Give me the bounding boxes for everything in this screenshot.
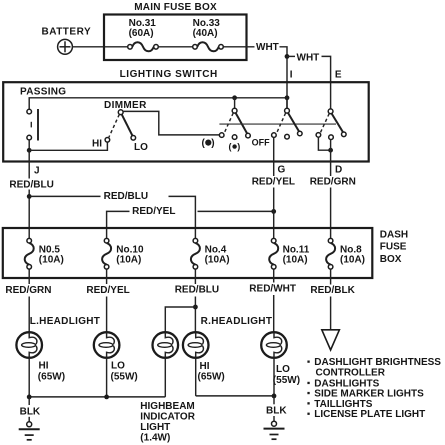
svg-text:LIGHTING SWITCH: LIGHTING SWITCH	[120, 69, 218, 80]
svg-text:(10A): (10A)	[39, 255, 64, 266]
wire dimmer output to switch 1	[123, 111, 219, 134]
node highbeam branch	[165, 305, 198, 333]
switch 2 parking	[272, 95, 303, 139]
svg-text:DASH: DASH	[380, 229, 408, 240]
svg-text:LO: LO	[111, 361, 125, 372]
wire RED/YEL to fuse No.10	[107, 206, 277, 239]
svg-text:CONTROLLER: CONTROLLER	[316, 367, 386, 378]
svg-text:DIMMER: DIMMER	[104, 100, 147, 111]
svg-text:E: E	[335, 70, 342, 81]
wire fuse No.10 to left headlight LO	[106, 269, 108, 332]
node WHT branch	[287, 53, 319, 64]
bulb right headlight HI	[183, 332, 225, 382]
fuse No.4 (10A)	[191, 238, 230, 269]
svg-text:MAIN FUSE BOX: MAIN FUSE BOX	[134, 2, 217, 13]
svg-text:(10A): (10A)	[283, 255, 308, 266]
wire switch3 to terminal D	[330, 140, 332, 177]
svg-text:G: G	[278, 164, 286, 175]
fuse No.33 (40A)	[193, 18, 224, 52]
wire fuse No.5 to left headlight HI	[28, 269, 30, 332]
lighting switch box	[3, 69, 369, 162]
svg-text:OFF: OFF	[252, 137, 270, 147]
svg-text:WHT: WHT	[256, 42, 279, 53]
svg-text:): )	[211, 138, 214, 149]
svg-text:LIGHT: LIGHT	[140, 422, 170, 433]
svg-text:L.HEADLIGHT: L.HEADLIGHT	[30, 316, 101, 327]
svg-text:HI: HI	[39, 361, 49, 372]
svg-text:BLK: BLK	[20, 406, 41, 417]
svg-text:RED/BLU: RED/BLU	[104, 191, 148, 202]
wire fuse No.4 to right headlight HI	[194, 269, 196, 332]
svg-text:BOX: BOX	[380, 254, 402, 265]
svg-text:FUSE: FUSE	[380, 242, 407, 253]
svg-text:(40A): (40A)	[193, 28, 218, 39]
svg-text:RED/GRN: RED/GRN	[310, 177, 356, 188]
svg-text:(10A): (10A)	[340, 255, 365, 266]
svg-text:(60A): (60A)	[129, 28, 154, 39]
switch 1 headlight	[219, 95, 250, 139]
svg-text:HI: HI	[200, 361, 210, 372]
dash fuse box	[3, 228, 408, 278]
fuse No.8 (10A)	[326, 238, 365, 269]
wire passing switch to node J	[28, 140, 30, 150]
wire fuse No.11 to right headlight LO	[273, 269, 275, 332]
svg-text:(65W): (65W)	[198, 372, 225, 383]
svg-text:RED/YEL: RED/YEL	[86, 285, 129, 296]
svg-text:RED/BLU: RED/BLU	[9, 180, 53, 191]
label switch1 mid position	[229, 142, 241, 152]
svg-text:BATTERY: BATTERY	[42, 27, 92, 38]
wire fuse No.8 to taillight connector	[330, 269, 332, 329]
wire RED/BLU to fuse No.4	[29, 191, 195, 239]
svg-text:LO: LO	[134, 142, 148, 153]
label highbeam indicator light	[140, 401, 195, 444]
svg-text:RED/WHT: RED/WHT	[249, 283, 296, 294]
ground right BLK	[264, 396, 288, 439]
wire D to fuse No.8	[330, 188, 332, 239]
svg-text:RED/BLK: RED/BLK	[310, 285, 355, 296]
svg-text:(1.4W): (1.4W)	[140, 433, 170, 444]
wire bus from passing switch to pin I	[29, 98, 287, 110]
svg-text:R.HEADLIGHT: R.HEADLIGHT	[201, 316, 273, 327]
svg-text:(: (	[229, 142, 232, 152]
svg-text:BLK: BLK	[266, 405, 287, 416]
node J junction and wire to dimmer HI contact	[27, 142, 108, 153]
wire WHT to pin I	[280, 47, 290, 110]
bulb highbeam indicator	[153, 332, 179, 358]
svg-text:RED/GRN: RED/GRN	[5, 285, 51, 296]
svg-text:(55W): (55W)	[111, 372, 138, 383]
svg-text:HIGHBEAM: HIGHBEAM	[140, 401, 194, 412]
wire G to fuse No.11	[273, 188, 275, 239]
svg-text:(10A): (10A)	[205, 255, 230, 266]
svg-text:HI: HI	[92, 138, 102, 149]
load list	[307, 357, 441, 420]
passing switch	[20, 86, 66, 140]
svg-text:J: J	[34, 166, 40, 177]
battery	[42, 27, 92, 55]
wire battery to main fuse box	[72, 46, 127, 48]
svg-text:INDICATOR: INDICATOR	[140, 412, 195, 423]
bulb right headlight LO	[261, 332, 300, 386]
svg-text:I: I	[290, 70, 293, 81]
svg-text:(55W): (55W)	[273, 375, 300, 386]
svg-text:PASSING: PASSING	[20, 86, 66, 97]
ground left BLK	[19, 397, 41, 440]
svg-text:D: D	[335, 164, 342, 175]
fuse No.11 (10A)	[269, 238, 310, 269]
dimmer switch	[92, 100, 148, 153]
fuse No.10 (10A)	[102, 238, 144, 269]
wire WHT branch to pin E	[322, 56, 331, 109]
fuse No.31 (60A)	[128, 18, 159, 52]
switch 3 taillight	[316, 109, 346, 140]
ground bus left	[27, 358, 166, 400]
mechanical link line	[219, 123, 336, 125]
wire J to fuse No.5	[27, 150, 32, 238]
svg-text:RED/YEL: RED/YEL	[132, 206, 175, 217]
wire switch3 left contact to node D	[318, 137, 333, 152]
fuse No.5 (10A)	[25, 238, 64, 269]
svg-text:LO: LO	[276, 364, 290, 375]
svg-text:(65W): (65W)	[38, 372, 65, 383]
svg-text:RED/YEL: RED/YEL	[252, 177, 295, 188]
bulb left headlight HI	[16, 332, 65, 382]
bulb left headlight LO	[94, 332, 138, 382]
wire fuse box to node WHT	[223, 46, 254, 48]
main fuse box	[104, 2, 247, 60]
svg-text:WHT: WHT	[297, 53, 320, 64]
svg-text:(10A): (10A)	[116, 255, 141, 266]
connector triangle taillight feed	[322, 330, 340, 350]
svg-text:LICENSE PLATE LIGHT: LICENSE PLATE LIGHT	[314, 409, 425, 420]
ground bus right	[196, 358, 277, 399]
label switch1 on position	[202, 138, 215, 149]
svg-text:RED/BLU: RED/BLU	[175, 285, 219, 296]
svg-text:): )	[237, 142, 240, 152]
svg-text:TAILLIGHTS: TAILLIGHTS	[314, 399, 372, 410]
wire between fuses	[158, 46, 192, 48]
wire switch2 to terminal G	[273, 137, 275, 176]
